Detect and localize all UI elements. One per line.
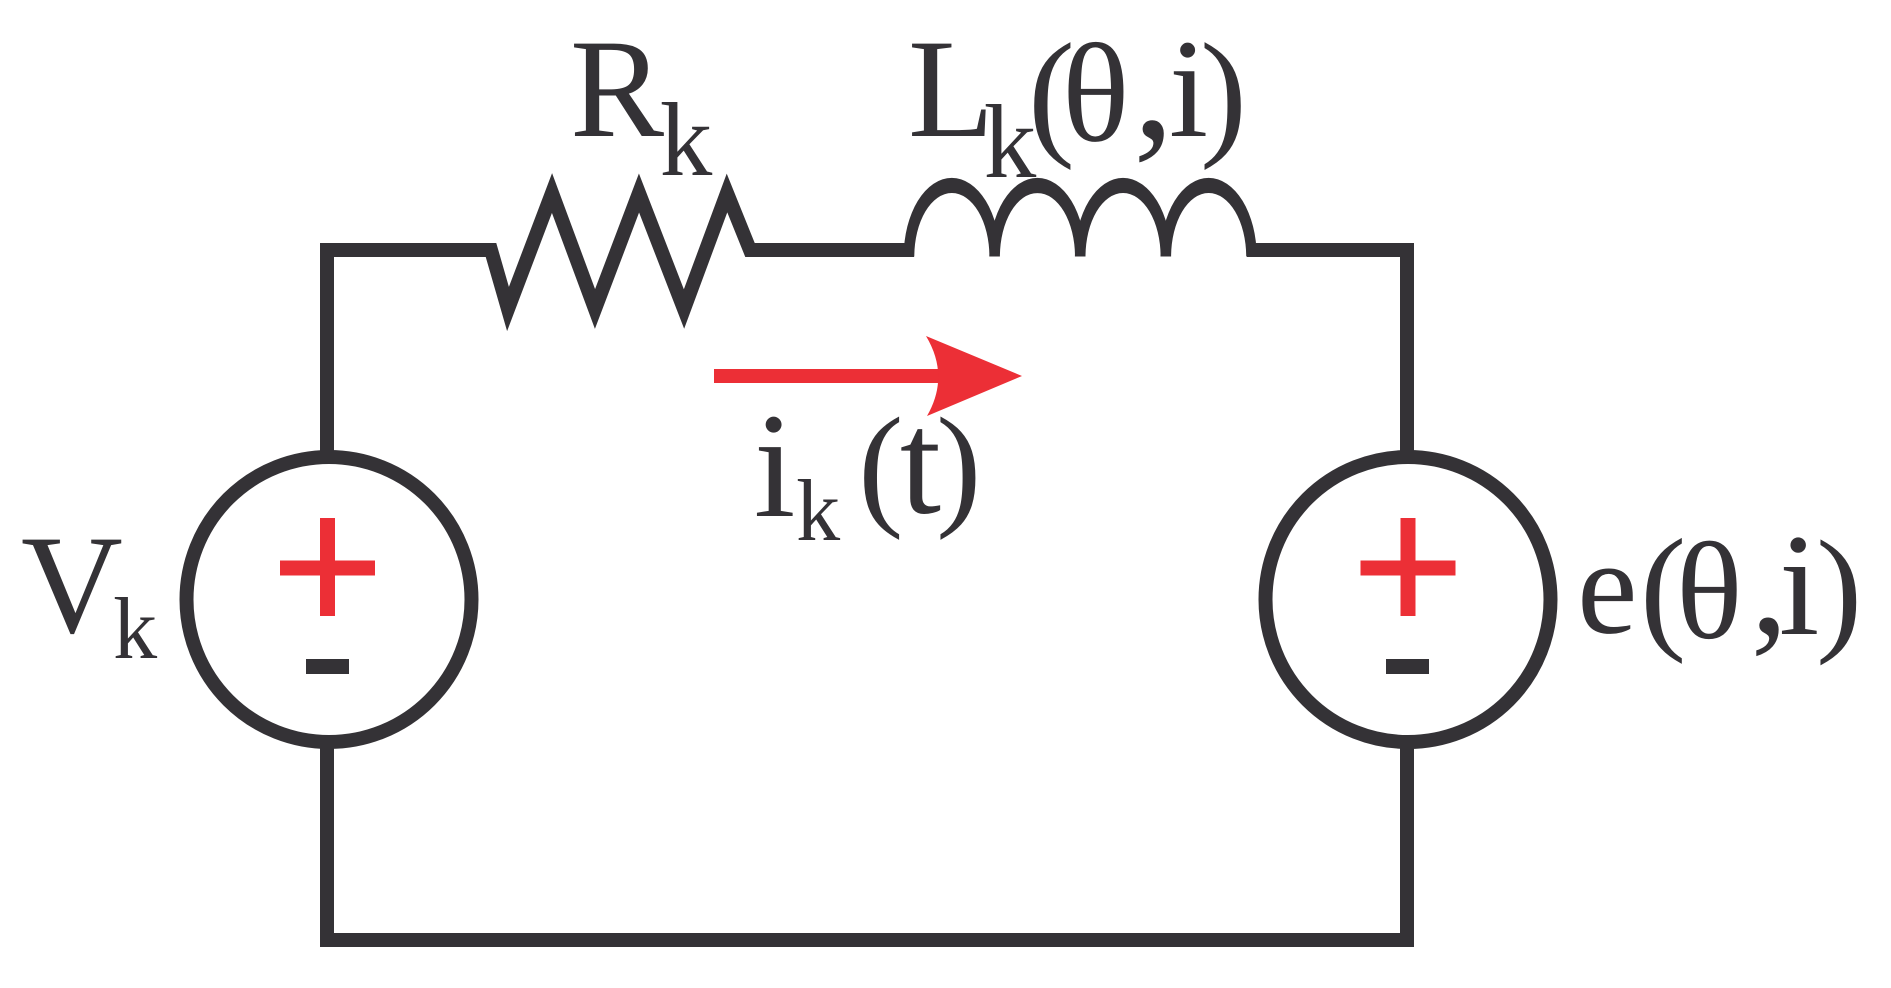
label e(theta,i) bbox=[1577, 500, 1862, 669]
wire top-left segment with resistor Rk zigzag and wire to inductor bbox=[327, 193, 914, 453]
svg-text:(: ( bbox=[858, 391, 903, 541]
voltage source e minus bbox=[1386, 659, 1429, 674]
svg-text:): ) bbox=[936, 391, 981, 541]
svg-text:): ) bbox=[1200, 15, 1247, 171]
svg-text:R: R bbox=[570, 11, 664, 167]
label Rk bbox=[570, 11, 713, 198]
svg-text:e: e bbox=[1577, 513, 1637, 663]
label ik(t) bbox=[754, 382, 982, 561]
svg-text:L: L bbox=[908, 11, 994, 167]
voltage source e circle bbox=[1266, 457, 1551, 742]
svg-text:k: k bbox=[660, 81, 713, 198]
voltage source Vk plus bbox=[280, 518, 375, 616]
svg-text:i: i bbox=[754, 383, 796, 549]
label Lk(theta,i) bbox=[908, 0, 1247, 200]
inductor Lk (four arches) bbox=[904, 178, 1257, 257]
svg-text:,: , bbox=[1133, 0, 1174, 173]
svg-text:k: k bbox=[796, 463, 840, 560]
current arrow ik head bbox=[926, 336, 1022, 416]
svg-text:V: V bbox=[21, 507, 123, 663]
label Vk bbox=[21, 507, 157, 678]
svg-text:θ: θ bbox=[1676, 515, 1743, 669]
wire bottom loop bbox=[327, 746, 1407, 940]
voltage source Vk circle bbox=[187, 457, 472, 742]
voltage source e plus bbox=[1361, 518, 1456, 616]
svg-text:i: i bbox=[1779, 504, 1820, 666]
voltage source Vk minus bbox=[306, 659, 349, 674]
svg-text:): ) bbox=[1816, 513, 1862, 667]
svg-text:θ: θ bbox=[1062, 16, 1130, 172]
wire inductor-to-corner top-right bbox=[1247, 250, 1407, 453]
svg-text:t: t bbox=[900, 382, 941, 546]
svg-text:k: k bbox=[113, 581, 157, 678]
current arrow ik shaft bbox=[714, 369, 948, 383]
